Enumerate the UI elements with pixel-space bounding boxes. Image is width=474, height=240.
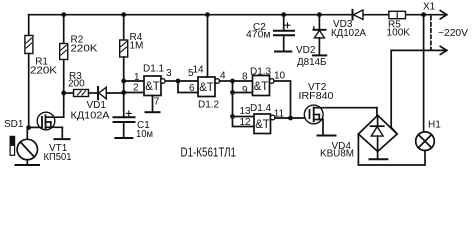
svg-text:D1-К561ТЛ1: D1-К561ТЛ1 bbox=[181, 145, 237, 159]
svg-text:7: 7 bbox=[154, 97, 160, 108]
bridge rectifier VD4 bbox=[358, 115, 397, 159]
diode VD1 bbox=[98, 87, 124, 99]
sensor SD1 bbox=[10, 128, 37, 165]
label VT1 bbox=[44, 143, 72, 163]
svg-text:220K: 220K bbox=[30, 66, 57, 77]
diode VD3 bbox=[353, 10, 364, 20]
resistor R5 bbox=[389, 11, 406, 18]
svg-text:Д814Б: Д814Б bbox=[297, 57, 327, 68]
ground C1 bbox=[115, 137, 132, 139]
node pin14 rail junction bbox=[205, 12, 210, 17]
label R3 bbox=[68, 71, 85, 89]
node pin1 junction bbox=[121, 79, 126, 84]
lamp H1 bbox=[416, 132, 435, 151]
label VD1 bbox=[71, 100, 110, 121]
connector X1 dashed boundary bbox=[430, 17, 432, 51]
node pin3/pin5 junction bbox=[176, 79, 181, 84]
svg-text:6: 6 bbox=[189, 83, 195, 94]
svg-text:10: 10 bbox=[274, 70, 286, 81]
wire gate VT2 bbox=[291, 117, 310, 119]
svg-text:КД102А: КД102А bbox=[71, 110, 110, 121]
gate D1.2 bbox=[198, 15, 233, 97]
svg-text:220K: 220K bbox=[71, 44, 98, 55]
node R4 top rail junction bbox=[121, 12, 126, 17]
svg-text:D1.3: D1.3 bbox=[250, 66, 272, 77]
ground SD1 bbox=[16, 164, 40, 166]
node pins 10/11 junction bbox=[288, 116, 293, 121]
wire pin3 to pins 5/6 bbox=[178, 81, 198, 93]
svg-text:D1.1: D1.1 bbox=[143, 63, 165, 74]
wire pin 9 bbox=[233, 92, 253, 94]
svg-text:14: 14 bbox=[193, 65, 205, 76]
svg-text:X1: X1 bbox=[423, 2, 436, 13]
wire output4 branch vertical bbox=[233, 81, 255, 127]
resistor R4 bbox=[120, 15, 128, 118]
label VD2 bbox=[296, 45, 327, 68]
svg-text:~220V: ~220V bbox=[438, 28, 468, 39]
svg-text:D1.2: D1.2 bbox=[198, 100, 220, 111]
gate D1.4 bbox=[254, 114, 291, 134]
svg-text:10м: 10м bbox=[136, 129, 153, 140]
label C2 bbox=[246, 22, 271, 41]
svg-text:13: 13 bbox=[240, 106, 252, 117]
node VD2 rail junction bbox=[317, 12, 322, 17]
svg-text:KBU8M: KBU8M bbox=[320, 149, 354, 160]
svg-text:11: 11 bbox=[274, 108, 285, 119]
resistor R2 bbox=[60, 15, 68, 93]
transistor VT2 bbox=[304, 105, 377, 135]
label R2 bbox=[71, 34, 98, 54]
node pin2 junction bbox=[121, 90, 126, 95]
wire pin 13 bbox=[233, 116, 255, 118]
node R2 top rail junction bbox=[61, 12, 66, 17]
svg-text:1M: 1M bbox=[130, 41, 144, 52]
svg-text:100K: 100K bbox=[387, 28, 411, 39]
zener VD2 bbox=[314, 15, 326, 56]
svg-text:D1.4: D1.4 bbox=[250, 103, 272, 114]
node pin9 junction bbox=[230, 90, 235, 95]
svg-text:4: 4 bbox=[220, 70, 226, 81]
ground C2 bbox=[275, 51, 291, 53]
svg-text:КД102А: КД102А bbox=[331, 28, 366, 39]
svg-text:3: 3 bbox=[166, 68, 172, 79]
transistor VT1 bbox=[29, 93, 70, 139]
svg-text:200: 200 bbox=[68, 79, 85, 90]
node R2/R3/VT1 drain junction bbox=[61, 91, 66, 96]
svg-text:&T: &T bbox=[254, 79, 269, 93]
connector X1 arrow 1 bbox=[440, 11, 447, 19]
ground VD4 bbox=[370, 158, 388, 160]
ground VT2 source bbox=[318, 135, 336, 137]
svg-text:КП501: КП501 bbox=[44, 152, 72, 163]
node gate VT1 / R1 / SD1 junction bbox=[26, 125, 31, 130]
svg-text:12: 12 bbox=[240, 117, 252, 128]
wire pin 2 input bbox=[124, 92, 144, 94]
ground VD2 bbox=[313, 54, 326, 56]
node pin13 junction bbox=[230, 114, 235, 119]
node X1 junction bbox=[421, 12, 426, 17]
resistor R1 bbox=[25, 15, 33, 128]
wire top power rail bbox=[29, 14, 353, 16]
capacitor C2 bbox=[274, 15, 294, 52]
node C2 rail junction bbox=[281, 12, 286, 17]
resistor R3 bbox=[64, 90, 98, 97]
svg-text:IRF840: IRF840 bbox=[299, 91, 334, 102]
label C1 bbox=[136, 120, 153, 140]
label R5 bbox=[387, 19, 411, 38]
wire rail R5-X1 segment bbox=[406, 14, 447, 16]
wire X1 to lamp H1 bbox=[423, 15, 425, 133]
svg-text:&T: &T bbox=[145, 79, 160, 93]
label VD4 bbox=[320, 141, 354, 160]
wire rail VD3-R5 segment bbox=[363, 14, 389, 16]
label R1 bbox=[30, 56, 57, 76]
node pin8 junction bbox=[230, 79, 235, 84]
wire H1 to bridge left corner bbox=[358, 134, 425, 165]
svg-text:470м: 470м bbox=[246, 30, 271, 41]
wire pin 8 bbox=[233, 80, 253, 82]
capacitor C1 bbox=[114, 117, 135, 137]
svg-text:&T: &T bbox=[255, 117, 270, 131]
svg-text:9: 9 bbox=[242, 85, 248, 96]
svg-text:&T: &T bbox=[199, 80, 214, 94]
wire X1 arrow 2 line bbox=[391, 46, 447, 134]
svg-text:SD1: SD1 bbox=[4, 119, 24, 130]
label R4 bbox=[130, 32, 144, 52]
label VT2 bbox=[299, 82, 334, 102]
gate D1.3 bbox=[253, 76, 291, 119]
svg-text:2: 2 bbox=[133, 83, 139, 94]
svg-text:8: 8 bbox=[242, 72, 248, 83]
ground pin 7 bbox=[146, 111, 160, 113]
gate D1.1 bbox=[144, 76, 178, 112]
svg-text:VD2: VD2 bbox=[296, 45, 316, 56]
label VD3 bbox=[331, 19, 366, 39]
svg-text:H1: H1 bbox=[428, 119, 441, 130]
wire pin 1 input bbox=[124, 80, 144, 82]
